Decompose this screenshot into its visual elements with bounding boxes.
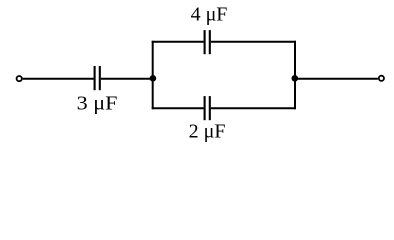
wire right edge lower [294, 78, 296, 109]
node B (right junction dot) [292, 75, 299, 82]
wire bottom edge left segment [152, 107, 204, 109]
wire C1 to node A [101, 78, 153, 80]
wire node A up (left edge upper) [152, 41, 154, 79]
capacitor C1 3 uF (series) [95, 66, 100, 90]
svg-text:3 μF: 3 μF [77, 93, 118, 115]
wire T1 to C1 [23, 78, 94, 80]
terminal T1 (left open circle) [17, 76, 22, 81]
capacitor C2 4 uF (top branch) [205, 30, 210, 54]
capacitor C3 2 uF (bottom branch) [205, 96, 210, 120]
svg-text:2 μF: 2 μF [189, 120, 226, 142]
wire right edge upper [294, 41, 296, 79]
wire bottom edge right segment [211, 107, 296, 109]
terminal T2 (right open circle) [379, 76, 384, 81]
wire top edge right segment [211, 41, 296, 43]
wire top edge left segment [152, 41, 204, 43]
wire node A down (left edge lower) [152, 78, 154, 109]
svg-text:4 μF: 4 μF [191, 4, 228, 26]
wire node B to T2 [295, 78, 378, 80]
node A (left junction dot) [150, 75, 157, 82]
